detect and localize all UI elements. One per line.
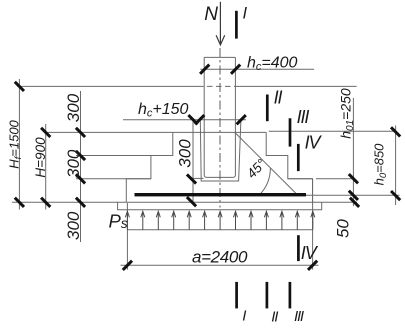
svg-text:II: II (271, 309, 278, 326)
svg-text:h0=850: h0=850 (371, 143, 389, 186)
svg-text:50: 50 (333, 219, 352, 238)
svg-text:Hf=1500: Hf=1500 (7, 119, 25, 168)
svg-text:N: N (204, 4, 218, 25)
svg-text:hc+150: hc+150 (138, 101, 189, 120)
svg-text:H=900: H=900 (33, 137, 48, 178)
svg-text:III: III (294, 308, 304, 325)
svg-text:III: III (297, 107, 310, 127)
svg-text:300: 300 (64, 149, 83, 178)
svg-text:a=2400: a=2400 (192, 247, 248, 266)
svg-text:300: 300 (64, 93, 83, 122)
svg-text:h01=250: h01=250 (337, 88, 356, 139)
svg-text:hc=400: hc=400 (247, 54, 298, 73)
svg-text:II: II (274, 88, 283, 108)
svg-text:300: 300 (64, 211, 83, 240)
svg-text:300: 300 (175, 139, 194, 168)
